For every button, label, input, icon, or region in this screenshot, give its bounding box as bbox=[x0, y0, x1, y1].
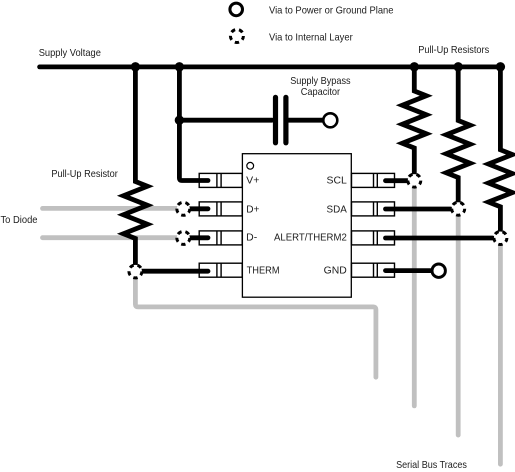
svg-text:Pull-Up Resistors: Pull-Up Resistors bbox=[418, 45, 489, 56]
junction dot supply/R3 bbox=[496, 62, 505, 71]
trace SDA (grey) bbox=[456, 210, 461, 435]
wire capacitor to via bbox=[289, 118, 324, 123]
capacitor C1 plate 1 bbox=[273, 97, 278, 142]
capacitor C1 plate 2 bbox=[283, 97, 288, 142]
trace ALERT (grey) bbox=[498, 240, 503, 465]
pad GND bbox=[352, 263, 395, 277]
svg-text:To Diode: To Diode bbox=[1, 215, 38, 226]
wire supply rail bbox=[40, 65, 501, 70]
wire THERM via to pad bbox=[138, 269, 208, 274]
wire GND pad to via bbox=[386, 268, 431, 273]
wire SDA pad to via bbox=[386, 207, 451, 212]
junction dot V+/capacitor bbox=[175, 116, 184, 125]
pad SCL bbox=[352, 173, 395, 187]
via (internal) ALERT bbox=[494, 232, 507, 245]
via (internal) SDA bbox=[452, 202, 465, 215]
wire ALERT pad to via bbox=[386, 236, 493, 241]
junction dot supply/R1 bbox=[410, 62, 419, 71]
resistor R1 (pull-up) bbox=[402, 67, 426, 173]
junction dot supply/R-left bbox=[131, 62, 140, 71]
legend via internal symbol bbox=[230, 30, 243, 43]
legend via power symbol bbox=[230, 3, 243, 16]
trace D- (grey) bbox=[43, 235, 180, 240]
pad THERM bbox=[199, 263, 242, 277]
svg-text:Via to Power or Ground Plane: Via to Power or Ground Plane bbox=[269, 6, 394, 17]
svg-text:Via to Internal Layer: Via to Internal Layer bbox=[269, 32, 353, 43]
svg-text:Supply Bypass: Supply Bypass bbox=[290, 76, 350, 87]
svg-text:SDA: SDA bbox=[327, 204, 347, 215]
wire capacitor branch bbox=[179, 118, 272, 123]
pad SDA bbox=[352, 202, 395, 216]
pad D+ bbox=[199, 202, 242, 216]
pin-1 indicator circle bbox=[247, 162, 254, 169]
svg-text:THERM: THERM bbox=[247, 266, 280, 277]
svg-text:SCL: SCL bbox=[327, 176, 348, 187]
via (power) GND bbox=[432, 264, 445, 277]
svg-text:D-: D- bbox=[246, 233, 257, 244]
via (internal) THERM bbox=[129, 265, 142, 278]
via (internal) D+ bbox=[177, 202, 190, 215]
wire V+ branch bbox=[179, 67, 208, 181]
pad ALERT/THERM2 bbox=[352, 231, 395, 245]
svg-text:Pull-Up Resistor: Pull-Up Resistor bbox=[51, 169, 118, 180]
trace D+ (grey) bbox=[43, 206, 180, 211]
svg-text:Capacitor: Capacitor bbox=[301, 87, 341, 98]
resistor R-left (pull-up resistor) with wire from supply to THERM via bbox=[123, 67, 147, 264]
trace SCL (grey) bbox=[412, 182, 417, 406]
via (internal) SCL bbox=[408, 174, 421, 187]
wire D- via to pad bbox=[184, 235, 208, 240]
via (power) capacitor bbox=[323, 113, 337, 127]
trace THERM (grey) bbox=[135, 277, 376, 377]
pad V+ bbox=[199, 173, 242, 187]
via (internal) D- bbox=[177, 231, 190, 244]
wire SCL pad to via bbox=[386, 178, 408, 183]
svg-text:Supply Voltage: Supply Voltage bbox=[39, 48, 101, 59]
junction dot supply/R2 bbox=[454, 62, 463, 71]
IC U1 temperature sensor body bbox=[242, 154, 351, 298]
svg-text:V+: V+ bbox=[246, 176, 259, 187]
wire D+ via to pad bbox=[184, 206, 208, 211]
svg-text:ALERT/THERM2: ALERT/THERM2 bbox=[274, 233, 347, 244]
svg-text:GND: GND bbox=[324, 266, 347, 277]
pad D- bbox=[199, 231, 242, 245]
svg-text:Serial Bus Traces: Serial Bus Traces bbox=[396, 460, 467, 471]
svg-text:D+: D+ bbox=[246, 204, 259, 215]
resistor R2 (pull-up) bbox=[446, 67, 470, 202]
resistor R3 (pull-up) bbox=[488, 67, 512, 231]
junction dot supply/V+ bbox=[175, 62, 184, 71]
